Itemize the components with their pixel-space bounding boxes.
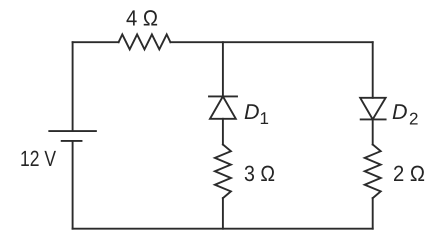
svg-text:3 Ω: 3 Ω	[244, 161, 275, 186]
svg-text:12 V: 12 V	[20, 146, 56, 171]
wire right branch upper	[372, 42, 374, 98]
wire top-right segment	[170, 41, 372, 43]
wire left-top (battery positive lead)	[72, 42, 74, 131]
diode D2 cathode bar	[361, 118, 386, 120]
diode D1 cathode bar	[209, 95, 237, 97]
wire right branch lower	[372, 198, 374, 229]
wire middle branch lower	[222, 198, 224, 229]
wire middle branch upper	[222, 42, 224, 96]
wire bottom rail	[73, 228, 373, 230]
svg-text:D2: D2	[392, 100, 419, 129]
svg-text:4 Ω: 4 Ω	[126, 6, 158, 31]
svg-text:D1: D1	[244, 100, 269, 128]
wire right branch mid	[372, 119, 374, 144]
battery V1 short plate	[62, 140, 82, 142]
svg-text:2 Ω: 2 Ω	[393, 161, 425, 186]
battery V1 long plate	[49, 130, 96, 132]
wire top-left segment	[73, 41, 119, 43]
resistor R2 3-ohm zigzag	[215, 145, 231, 199]
resistor R1 4-ohm zigzag	[119, 34, 171, 49]
diode D1 triangle	[210, 96, 236, 118]
diode D2 triangle	[360, 98, 385, 120]
wire left-bottom (battery negative lead)	[72, 141, 74, 229]
wire middle branch mid	[222, 119, 224, 145]
resistor R3 2-ohm zigzag	[365, 145, 381, 199]
